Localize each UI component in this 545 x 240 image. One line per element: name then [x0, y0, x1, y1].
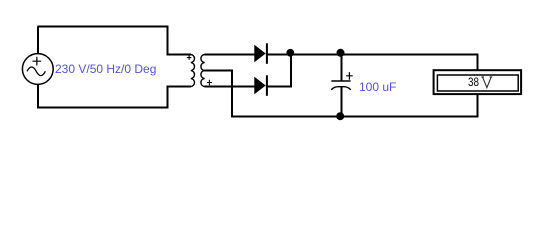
AC source V1 circle	[22, 54, 53, 85]
diode D2	[254, 75, 268, 96]
wire primary bottom lead	[167, 86, 192, 88]
wire bottom rail	[231, 116, 479, 118]
wire top-left rail	[38, 26, 169, 28]
transformer T1 secondary winding	[201, 55, 205, 87]
wire capacitor bottom lead	[341, 87, 343, 118]
label voltmeter reading 38	[468, 75, 479, 89]
wire D1 cathode to node	[267, 54, 292, 56]
wire center tap drop	[231, 70, 233, 118]
wire primary top lead	[167, 54, 192, 56]
voltmeter U1 outer box	[434, 70, 521, 94]
node junction dot capacitor bottom	[336, 112, 344, 120]
transformer T1 secondary plus mark	[207, 80, 212, 85]
wire D2 cathode to riser	[267, 86, 292, 88]
wire meter top drop	[477, 54, 479, 71]
AC source sine wave	[27, 67, 45, 76]
label capacitor value 100 uF	[359, 80, 396, 94]
label source value 230 V/50 Hz/0 Deg	[55, 62, 156, 76]
capacitor C1 plus mark	[346, 72, 353, 80]
wire top rail to meter	[290, 54, 479, 56]
node junction dot capacitor top	[337, 49, 345, 57]
transformer T1 primary winding	[191, 55, 195, 87]
wire bottom-left rail	[37, 107, 169, 109]
wire source top stub	[37, 27, 39, 55]
wire meter bottom drop	[477, 95, 479, 118]
wire secondary bottom lead to D2	[205, 86, 256, 88]
capacitor C1 bottom plate	[331, 87, 350, 90]
voltmeter U1 unit V glyph	[481, 77, 492, 88]
transformer T1 primary plus mark	[187, 55, 192, 60]
diode D1	[254, 43, 268, 64]
wire center tap lead	[205, 70, 233, 72]
wire secondary top lead to D1	[205, 54, 256, 56]
wire left vertical to primary top	[167, 27, 169, 56]
AC source plus sign	[32, 57, 41, 66]
voltmeter U1 inner box	[437, 75, 518, 91]
node junction dot rectifier output	[286, 49, 294, 57]
capacitor C1 top plate	[331, 72, 352, 90]
wire left vertical to primary bottom	[167, 87, 169, 109]
wire capacitor top lead	[341, 54, 343, 82]
wire D2 riser up to node	[290, 54, 292, 88]
wire source bottom stub	[37, 84, 39, 109]
